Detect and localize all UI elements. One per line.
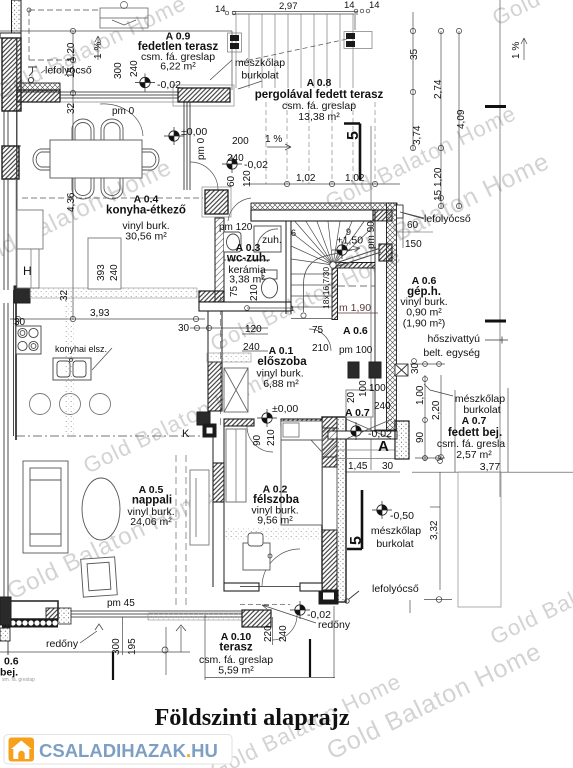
svg-text:CSALADIHAZAK.HU: CSALADIHAZAK.HU xyxy=(39,740,218,761)
wall felszoba south xyxy=(224,583,259,591)
room A0.1 labels xyxy=(256,345,307,390)
svg-text:6: 6 xyxy=(291,228,296,238)
svg-text:pm 0: pm 0 xyxy=(196,137,207,160)
wall west mid hatched xyxy=(2,146,19,179)
svg-text:lefolyócső: lefolyócső xyxy=(372,583,419,595)
wall felszoba east xyxy=(319,417,346,604)
svg-text:1,20: 1,20 xyxy=(66,42,77,62)
svg-text:5: 5 xyxy=(348,536,365,545)
svg-text:lefolyócső: lefolyócső xyxy=(424,213,471,225)
bottom-left neighbour bits xyxy=(0,628,10,641)
svg-text:240: 240 xyxy=(109,264,120,281)
long section vlines xyxy=(370,126,372,470)
sofa xyxy=(23,461,68,553)
svg-text:220: 220 xyxy=(263,625,274,642)
wall top-left speckled vertical xyxy=(12,0,22,33)
svg-text:A 0.6: A 0.6 xyxy=(343,325,368,337)
section 5 markers xyxy=(344,124,362,550)
svg-text:mészkőlap: mészkőlap xyxy=(235,57,285,69)
svg-text:200: 200 xyxy=(232,136,249,147)
svg-text:A: A xyxy=(378,438,389,455)
felszoba speckled band xyxy=(224,527,322,541)
section 5 tick top xyxy=(485,105,506,108)
wall stair north band xyxy=(251,203,397,210)
svg-text:4,36: 4,36 xyxy=(66,192,77,212)
K column xyxy=(203,424,216,437)
svg-text:120: 120 xyxy=(245,324,262,335)
svg-text:210: 210 xyxy=(266,429,277,446)
wall pier kitchen south-east xyxy=(199,291,224,302)
svg-text:15: 15 xyxy=(433,189,444,201)
svg-text:120: 120 xyxy=(242,170,253,187)
pergola posts xyxy=(230,33,355,49)
svg-text:előszoba: előszoba xyxy=(257,356,307,368)
desk and chair felszoba xyxy=(243,533,272,570)
terrace A0.9 dashed boundary xyxy=(29,10,100,60)
svg-text:210: 210 xyxy=(312,343,329,354)
porch threshold hatch xyxy=(322,428,337,457)
room A0.4 labels xyxy=(106,194,186,243)
porch dim line y472 and y490 xyxy=(340,471,400,473)
svg-text:redőny: redőny xyxy=(46,638,79,650)
svg-text:H: H xyxy=(23,264,32,278)
felszoba closet xyxy=(226,429,246,502)
geph washer xyxy=(346,390,373,417)
svg-text:3,77: 3,77 xyxy=(480,461,501,473)
svg-text:burkolat: burkolat xyxy=(241,70,278,82)
svg-text:30: 30 xyxy=(178,323,190,334)
level -0,02 terrace A0.9 xyxy=(135,74,155,92)
drain leader top-left xyxy=(41,70,45,73)
dash-dot section line kitchen/nappali xyxy=(16,435,213,437)
svg-text:3,74: 3,74 xyxy=(412,125,423,145)
svg-text:1,20: 1,20 xyxy=(433,167,444,187)
room A0.10 labels xyxy=(199,631,273,677)
meszkolap bottom right xyxy=(371,525,421,550)
svg-text:9: 9 xyxy=(346,227,351,237)
logo xyxy=(4,735,232,765)
nappali west bottom corner xyxy=(0,597,11,625)
felszoba terrace door arc xyxy=(262,549,300,586)
svg-text:4,09: 4,09 xyxy=(456,109,467,129)
kitchen east door arc xyxy=(190,162,218,190)
hall-stair door arc xyxy=(309,329,331,351)
room A0.2 labels xyxy=(251,484,299,527)
shower xyxy=(254,226,281,252)
tv cabinet nappali east xyxy=(190,470,209,545)
room A0.7 labels right xyxy=(437,393,505,473)
svg-text:9,56 m²: 9,56 m² xyxy=(257,515,293,527)
room A0.6 labels right xyxy=(400,275,447,330)
svg-text:6,88 m²: 6,88 m² xyxy=(263,378,299,390)
hoszivattyu tick xyxy=(485,337,508,344)
wall pier terrace door xyxy=(173,85,234,106)
hosziv labels xyxy=(423,333,480,359)
bottom terrace dims xyxy=(0,651,190,653)
room A0.5 labels xyxy=(127,484,174,528)
svg-text:14: 14 xyxy=(369,0,380,11)
A0.8 terrace left edge xyxy=(231,31,233,90)
svg-text:1 %: 1 % xyxy=(93,42,104,59)
svg-text:30: 30 xyxy=(14,317,26,328)
svg-text:30: 30 xyxy=(410,362,421,374)
dim line hosziv y364 xyxy=(410,363,445,365)
speckled flue band xyxy=(64,300,75,436)
pergola diagonal leader dashed xyxy=(240,38,352,62)
drain symbol top-left xyxy=(28,67,37,83)
svg-text:240: 240 xyxy=(227,153,244,164)
1% arrow pergola right xyxy=(521,38,527,60)
svg-text:m 1,90: m 1,90 xyxy=(339,302,371,314)
svg-text:100: 100 xyxy=(358,380,369,397)
level -0,02 terrace bottom xyxy=(290,601,310,619)
svg-text:60: 60 xyxy=(407,220,419,231)
dining table xyxy=(50,140,142,178)
nappali terrace door arc xyxy=(272,615,297,640)
svg-text:240: 240 xyxy=(129,60,140,77)
svg-text:konyhai elsz.: konyhai elsz. xyxy=(55,344,107,354)
svg-text:13,38 m²: 13,38 m² xyxy=(298,111,340,123)
window west y111-146 xyxy=(2,111,21,146)
stair walk line xyxy=(304,247,361,313)
svg-text:hőszivattyú: hőszivattyú xyxy=(427,333,480,345)
pergola top chord xyxy=(232,11,358,13)
svg-text:1,00: 1,00 xyxy=(415,385,426,405)
top dim small marks xyxy=(225,9,370,15)
dining chair right xyxy=(142,149,159,170)
svg-text:konyha-étkező: konyha-étkező xyxy=(106,205,186,217)
meszkolap top xyxy=(235,57,285,82)
hall closet X xyxy=(224,368,248,412)
svg-text:35: 35 xyxy=(409,48,420,60)
svg-text:240: 240 xyxy=(243,342,260,353)
svg-text:30,56 m²: 30,56 m² xyxy=(125,231,167,243)
stair center node xyxy=(330,262,336,268)
svg-text:1,45: 1,45 xyxy=(348,461,368,472)
porch dim vlines xyxy=(424,375,426,460)
room A0.9 labels xyxy=(138,31,219,73)
svg-text:210: 210 xyxy=(249,284,260,301)
svg-text:18x16,7/30: 18x16,7/30 xyxy=(321,267,331,309)
svg-text:240: 240 xyxy=(374,401,391,412)
svg-text:14: 14 xyxy=(215,4,226,15)
svg-text:30: 30 xyxy=(382,461,394,472)
svg-text:393: 393 xyxy=(96,264,107,281)
svg-text:20: 20 xyxy=(346,391,357,403)
svg-text:240: 240 xyxy=(278,625,289,642)
level -0,02 porch xyxy=(346,422,366,440)
svg-text:-0,02: -0,02 xyxy=(157,79,181,91)
bottom right dim xyxy=(424,599,452,601)
dining chair left xyxy=(33,149,50,170)
svg-text:pm 100: pm 100 xyxy=(339,345,373,356)
geph south piers xyxy=(348,362,359,378)
svg-text:K: K xyxy=(182,428,190,440)
svg-text:-0,02: -0,02 xyxy=(307,609,331,621)
hall speckled band xyxy=(207,353,251,362)
toilet xyxy=(262,270,278,298)
svg-text:pm 0: pm 0 xyxy=(112,106,135,117)
svg-text:2,57 m²: 2,57 m² xyxy=(456,449,492,461)
wall wc/stair vertical xyxy=(286,221,291,314)
right dim verticals xyxy=(412,12,414,150)
porch lower step rect xyxy=(458,472,501,607)
svg-text:±0,00: ±0,00 xyxy=(272,403,298,415)
dimension texts xyxy=(14,0,522,655)
hall west wall xyxy=(208,311,222,412)
dim vline x73 kitchen xyxy=(72,31,74,320)
svg-text:A 0.7: A 0.7 xyxy=(462,415,487,427)
svg-text:1 %: 1 % xyxy=(511,42,522,59)
staircase xyxy=(245,222,381,319)
svg-text:5: 5 xyxy=(345,131,362,140)
svg-text:14: 14 xyxy=(344,0,355,11)
svg-text:24,06 m²: 24,06 m² xyxy=(130,516,172,528)
svg-text:2,74: 2,74 xyxy=(433,79,444,99)
stove xyxy=(16,326,41,354)
kitchen sink xyxy=(53,358,91,380)
svg-text:belt. egység: belt. egység xyxy=(423,347,480,359)
svg-text:2,97: 2,97 xyxy=(279,1,298,12)
kitchen island xyxy=(88,238,121,289)
svg-text:pm 45: pm 45 xyxy=(107,598,135,609)
room A0.8 labels xyxy=(255,77,384,123)
top roof edge line xyxy=(0,30,232,32)
svg-text:150: 150 xyxy=(405,239,422,250)
svg-text:1: 1 xyxy=(290,304,294,313)
dim circles left xyxy=(27,8,76,96)
kitchen bar stools xyxy=(30,394,51,415)
wall pier hall north xyxy=(205,190,228,214)
stair headroom dashed xyxy=(338,285,375,287)
pergola rafters xyxy=(236,14,353,88)
grill rect on terrace xyxy=(100,2,148,29)
svg-text:100: 100 xyxy=(369,383,386,394)
nappali west window xyxy=(4,303,8,597)
hosziv outdoor unit xyxy=(395,364,408,376)
svg-text:300: 300 xyxy=(113,62,124,79)
svg-text:-0,02: -0,02 xyxy=(244,159,268,171)
svg-text:Földszinti alaprajz: Földszinti alaprajz xyxy=(154,704,349,731)
svg-text:5,59 m²: 5,59 m² xyxy=(218,665,254,677)
svg-text:75: 75 xyxy=(229,285,240,297)
svg-text:3,38 m²: 3,38 m² xyxy=(229,274,265,286)
dim line y328 hall xyxy=(190,327,268,329)
svg-text:90: 90 xyxy=(415,431,426,443)
svg-text:sm. fá. greslap: sm. fá. greslap xyxy=(2,677,35,683)
svg-text:1,02: 1,02 xyxy=(296,173,316,184)
kitchen east glass wall xyxy=(184,102,190,190)
wall west upper hatched xyxy=(2,38,21,111)
svg-text:A 0.8: A 0.8 xyxy=(307,77,332,89)
svg-text:pm 90: pm 90 xyxy=(366,221,377,249)
furniture xyxy=(16,119,408,597)
porch north wall xyxy=(328,431,397,439)
level -0,50 outside xyxy=(372,501,392,519)
svg-text:300: 300 xyxy=(111,638,122,655)
svg-text:32: 32 xyxy=(59,289,70,301)
terrace A0.8 floor dashed joints xyxy=(266,102,375,184)
svg-text:nappali: nappali xyxy=(132,495,172,507)
svg-text:75: 75 xyxy=(312,325,324,336)
level +-0,00 kitchen xyxy=(164,127,184,145)
svg-text:terasz: terasz xyxy=(219,642,252,654)
svg-text:1 %: 1 % xyxy=(265,134,282,145)
dim line y184 1,02 xyxy=(244,183,400,185)
leader lines redony etc xyxy=(80,60,453,643)
svg-text:mészkőlap: mészkőlap xyxy=(371,525,421,537)
wall nappali/felszoba vertical xyxy=(213,426,224,587)
washbasin xyxy=(224,232,241,252)
dim line y319 kitchen xyxy=(10,318,205,320)
3,32 dim vline xyxy=(439,472,441,590)
bed felszoba xyxy=(281,421,322,525)
wall nappali south xyxy=(4,601,58,619)
wall felszoba north xyxy=(224,419,254,426)
wall kitchen north window band xyxy=(17,83,60,92)
svg-text:6,22 m²: 6,22 m² xyxy=(160,61,196,73)
dining chairs top xyxy=(72,119,94,140)
kitchen north sliding window xyxy=(60,92,178,102)
window west y179-290 xyxy=(4,179,16,290)
svg-text:32: 32 xyxy=(66,102,77,114)
stair straight steps xyxy=(291,274,332,319)
drain symbol bottom-right xyxy=(345,591,359,603)
porch entry door X xyxy=(346,419,392,439)
wall east main xyxy=(375,203,403,430)
felszoba door arc xyxy=(247,426,273,452)
svg-text:2,20: 2,20 xyxy=(431,400,442,420)
svg-text:-0,50: -0,50 xyxy=(390,510,414,522)
1% arrow kitchen terrace xyxy=(95,36,101,60)
svg-text:90: 90 xyxy=(252,434,263,446)
svg-text:±0,00: ±0,00 xyxy=(181,126,207,138)
wall kitchen/wc vertical xyxy=(215,218,224,302)
hall dashed overhang xyxy=(220,297,222,425)
svg-text:burkolat: burkolat xyxy=(376,538,413,550)
armchair xyxy=(81,557,118,597)
svg-text:60: 60 xyxy=(226,175,237,187)
svg-text:wc-zuh.: wc-zuh. xyxy=(226,253,269,265)
svg-text:15: 15 xyxy=(66,66,77,78)
svg-text:zuh.: zuh. xyxy=(262,234,282,246)
entry pier speckled xyxy=(395,421,409,459)
porch steps xyxy=(335,450,395,459)
felszoba right dims xyxy=(354,15,356,30)
svg-text:3,32: 3,32 xyxy=(429,520,440,540)
wc door arc xyxy=(228,198,251,221)
level -0,02 terrace A0.8 xyxy=(222,155,242,173)
door arcs xyxy=(228,198,331,640)
kitchen counter left xyxy=(17,210,43,249)
level +1,50 stair xyxy=(332,241,352,259)
walls xyxy=(0,0,409,655)
svg-text:195: 195 xyxy=(127,638,138,655)
svg-text:A 0.7: A 0.7 xyxy=(345,407,370,419)
stair handrail diagonal xyxy=(333,249,381,268)
terrace A0.10 boundary xyxy=(204,615,206,680)
dining chairs bottom xyxy=(72,178,94,199)
stair winder lines xyxy=(291,222,374,266)
wall wc south xyxy=(199,302,291,311)
gep.h right side dims xyxy=(402,206,404,248)
svg-text:3,93: 3,93 xyxy=(90,308,110,319)
kitchen north window arc xyxy=(100,104,143,136)
wall stair/geph hatched band xyxy=(336,263,376,269)
nappali dashed overhang lines xyxy=(176,455,186,605)
level +-0,00 hall xyxy=(257,409,277,427)
speckled band kitchen north counters xyxy=(30,288,197,298)
svg-text:(1,90 m²): (1,90 m²) xyxy=(403,318,446,330)
wall west step kitchen xyxy=(15,286,17,440)
svg-text:1,02: 1,02 xyxy=(345,173,365,184)
kitchen pm0 dashed line xyxy=(22,197,203,199)
svg-text:pm 120: pm 120 xyxy=(219,222,253,233)
wall top-left horizontal band xyxy=(0,33,21,38)
coffee table ellipse xyxy=(82,478,120,540)
room label texts xyxy=(0,31,505,684)
